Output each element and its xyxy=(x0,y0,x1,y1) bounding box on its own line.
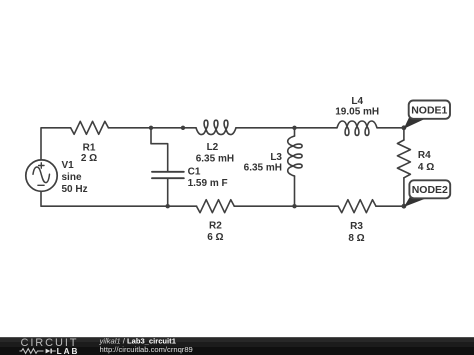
logo resistor zigzag xyxy=(20,349,44,354)
wire C1 junction to L2 xyxy=(151,127,196,129)
inductor L4 xyxy=(337,121,377,135)
voltage source V1 minus sign xyxy=(38,184,44,186)
inductor L2 xyxy=(196,120,236,134)
wire left rail top (V1 top to R1 left lead) xyxy=(41,128,71,160)
logo diode symbol xyxy=(46,349,56,354)
wire L3 junction to L4 xyxy=(295,127,338,129)
node L3 bottom junction xyxy=(292,204,296,208)
wire NODE1 anchor to R4 top xyxy=(403,128,405,140)
wire L2 to L3 junction xyxy=(236,127,295,129)
svg-text:2 Ω: 2 Ω xyxy=(81,153,97,164)
svg-text:1.59 m F: 1.59 m F xyxy=(188,178,228,189)
label R1 xyxy=(81,142,97,164)
label L2 xyxy=(196,142,234,165)
label R3 xyxy=(348,221,364,244)
svg-text:R2: R2 xyxy=(209,221,222,232)
svg-text:L2: L2 xyxy=(207,142,219,153)
label C1 xyxy=(188,167,228,190)
wire R1 to C1 junction xyxy=(108,127,151,129)
resistor R1 xyxy=(71,121,109,134)
wire NODE2 anchor to R3 right lead xyxy=(376,205,404,207)
svg-text:R4: R4 xyxy=(418,150,431,161)
node wire joint before L2 xyxy=(181,126,185,130)
inductor L3 xyxy=(288,136,302,176)
wire C1 bottom junction to V1 bottom xyxy=(41,191,168,206)
svg-text:L4: L4 xyxy=(351,96,363,107)
svg-text:R3: R3 xyxy=(350,221,363,232)
wire L3 top stub xyxy=(294,128,296,136)
node NODE1 anchor xyxy=(402,125,407,130)
svg-text:6.35 mH: 6.35 mH xyxy=(244,162,282,173)
label V1 xyxy=(62,160,88,195)
wire C1 branch top elbow xyxy=(151,128,168,171)
svg-text:V1: V1 xyxy=(62,160,75,171)
svg-text:NODE1: NODE1 xyxy=(411,104,447,116)
resistor R3 xyxy=(338,200,376,213)
svg-text:C1: C1 xyxy=(188,167,201,178)
wire C1 bottom lead xyxy=(167,179,169,206)
svg-text:R1: R1 xyxy=(83,142,96,153)
svg-text:sine: sine xyxy=(62,172,82,183)
svg-text:8 Ω: 8 Ω xyxy=(348,233,364,244)
voltage source V1 sine wave xyxy=(33,167,50,183)
capacitor C1 plates xyxy=(152,172,184,178)
voltage source V1 plus sign xyxy=(39,163,44,168)
voltage source V1 circle xyxy=(26,160,57,191)
svg-text:6 Ω: 6 Ω xyxy=(207,232,223,243)
resistor R4 xyxy=(397,140,410,178)
svg-text:4 Ω: 4 Ω xyxy=(418,162,434,173)
svg-text:http://circuitlab.com/crnqr89: http://circuitlab.com/crnqr89 xyxy=(100,345,193,354)
svg-text:6.35 mH: 6.35 mH xyxy=(196,154,234,165)
node NODE2 anchor xyxy=(402,204,407,209)
node junction C1 top xyxy=(149,126,153,130)
label L4 xyxy=(335,96,379,118)
svg-text:50 Hz: 50 Hz xyxy=(62,184,88,195)
wire R3 to L3 bottom junction xyxy=(295,205,339,207)
label R2 xyxy=(207,221,223,243)
wire L3 bottom junction to R2 xyxy=(234,205,294,207)
wire L4 to NODE1 anchor xyxy=(377,127,404,129)
footer bar background xyxy=(0,337,474,355)
node C1 bottom junction xyxy=(166,204,170,208)
wire R4 bottom to NODE2 anchor xyxy=(403,178,405,206)
label L3 xyxy=(244,152,283,173)
resistor R2 xyxy=(197,200,235,213)
wire R2 to C1 bottom junction xyxy=(168,205,197,207)
label R4 xyxy=(418,150,434,173)
svg-text:19.05 mH: 19.05 mH xyxy=(335,106,379,117)
wire L3 bottom stub xyxy=(294,176,296,206)
flag NODE2 xyxy=(404,180,450,207)
flag NODE1 xyxy=(404,101,450,129)
svg-text:NODE2: NODE2 xyxy=(412,184,448,196)
svg-text:LAB: LAB xyxy=(57,347,80,355)
node L3 top junction xyxy=(292,126,296,130)
